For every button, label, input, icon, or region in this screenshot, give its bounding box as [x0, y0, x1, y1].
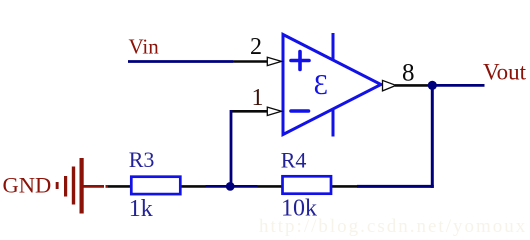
ground symbol bar 2 [64, 176, 67, 197]
wire GND symbol lead (maroon) [83, 185, 104, 188]
junction output node dot [428, 81, 437, 90]
wire junction node A to R4 [230, 185, 258, 188]
svg-text:GND: GND [3, 173, 52, 198]
svg-text:3: 3 [314, 70, 328, 101]
svg-text:1: 1 [252, 85, 264, 111]
wire stub dot (maroon) [106, 185, 109, 188]
pin 2 lead [233, 60, 269, 63]
R4 right lead [332, 185, 358, 188]
wire Vin to pin 2 (net Vin) [128, 60, 233, 63]
op-amp plus input marking [291, 52, 309, 70]
svg-text:8: 8 [402, 60, 415, 87]
resistor R4 body [283, 176, 332, 193]
svg-text:R4: R4 [281, 148, 307, 173]
pin 8 output lead [395, 84, 430, 87]
R3 right lead [181, 185, 206, 188]
svg-text:Vin: Vin [129, 34, 160, 58]
svg-text:1k: 1k [129, 196, 153, 222]
svg-text:2: 2 [250, 34, 262, 60]
pin 1 input arrow [267, 107, 281, 115]
wire output node to Vout [432, 84, 485, 87]
feedback wire vertical right [431, 85, 434, 187]
R4 left lead [258, 185, 283, 188]
op-amp power pin bottom [332, 110, 335, 137]
op-amp minus input marking [291, 109, 309, 113]
ground symbol bar 1 [56, 182, 59, 189]
svg-text:Vout: Vout [483, 59, 527, 84]
pin 2 input arrow [267, 57, 281, 65]
R3 left lead [108, 185, 131, 188]
junction node A dot [226, 182, 235, 191]
op-amp power pin top [332, 33, 335, 60]
wire R3 to junction node A [206, 185, 231, 188]
ground symbol bar 4 [80, 158, 84, 214]
pin 8 output arrow [383, 80, 397, 91]
op-amp U1 body [283, 35, 381, 135]
svg-text:R3: R3 [129, 147, 155, 172]
feedback wire horizontal bottom [357, 185, 434, 188]
pin 1 lead [231, 110, 269, 113]
svg-text:http://blog.csdn.net/yomoux: http://blog.csdn.net/yomoux [259, 216, 527, 237]
ground symbol bar 3 [72, 167, 75, 205]
resistor R3 body [131, 177, 180, 194]
wire pin 1 to feedback node (vertical) [230, 110, 233, 186]
